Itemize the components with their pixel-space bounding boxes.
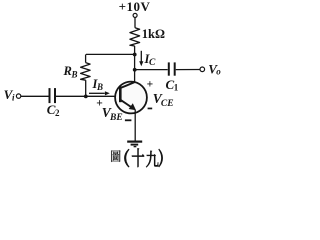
svg-text:+: +: [147, 79, 154, 91]
svg-text:+10V: +10V: [119, 0, 151, 14]
svg-text:1: 1: [174, 83, 179, 93]
svg-text:B: B: [71, 70, 78, 80]
svg-text:o: o: [216, 67, 221, 77]
svg-text:1kΩ: 1kΩ: [142, 27, 165, 41]
svg-text:CE: CE: [161, 99, 174, 109]
svg-text:BE: BE: [109, 113, 123, 123]
svg-text:B: B: [96, 82, 103, 92]
svg-text:C: C: [149, 58, 156, 68]
svg-text:i: i: [12, 92, 15, 102]
svg-text:2: 2: [55, 108, 60, 118]
svg-text:R: R: [63, 64, 72, 78]
